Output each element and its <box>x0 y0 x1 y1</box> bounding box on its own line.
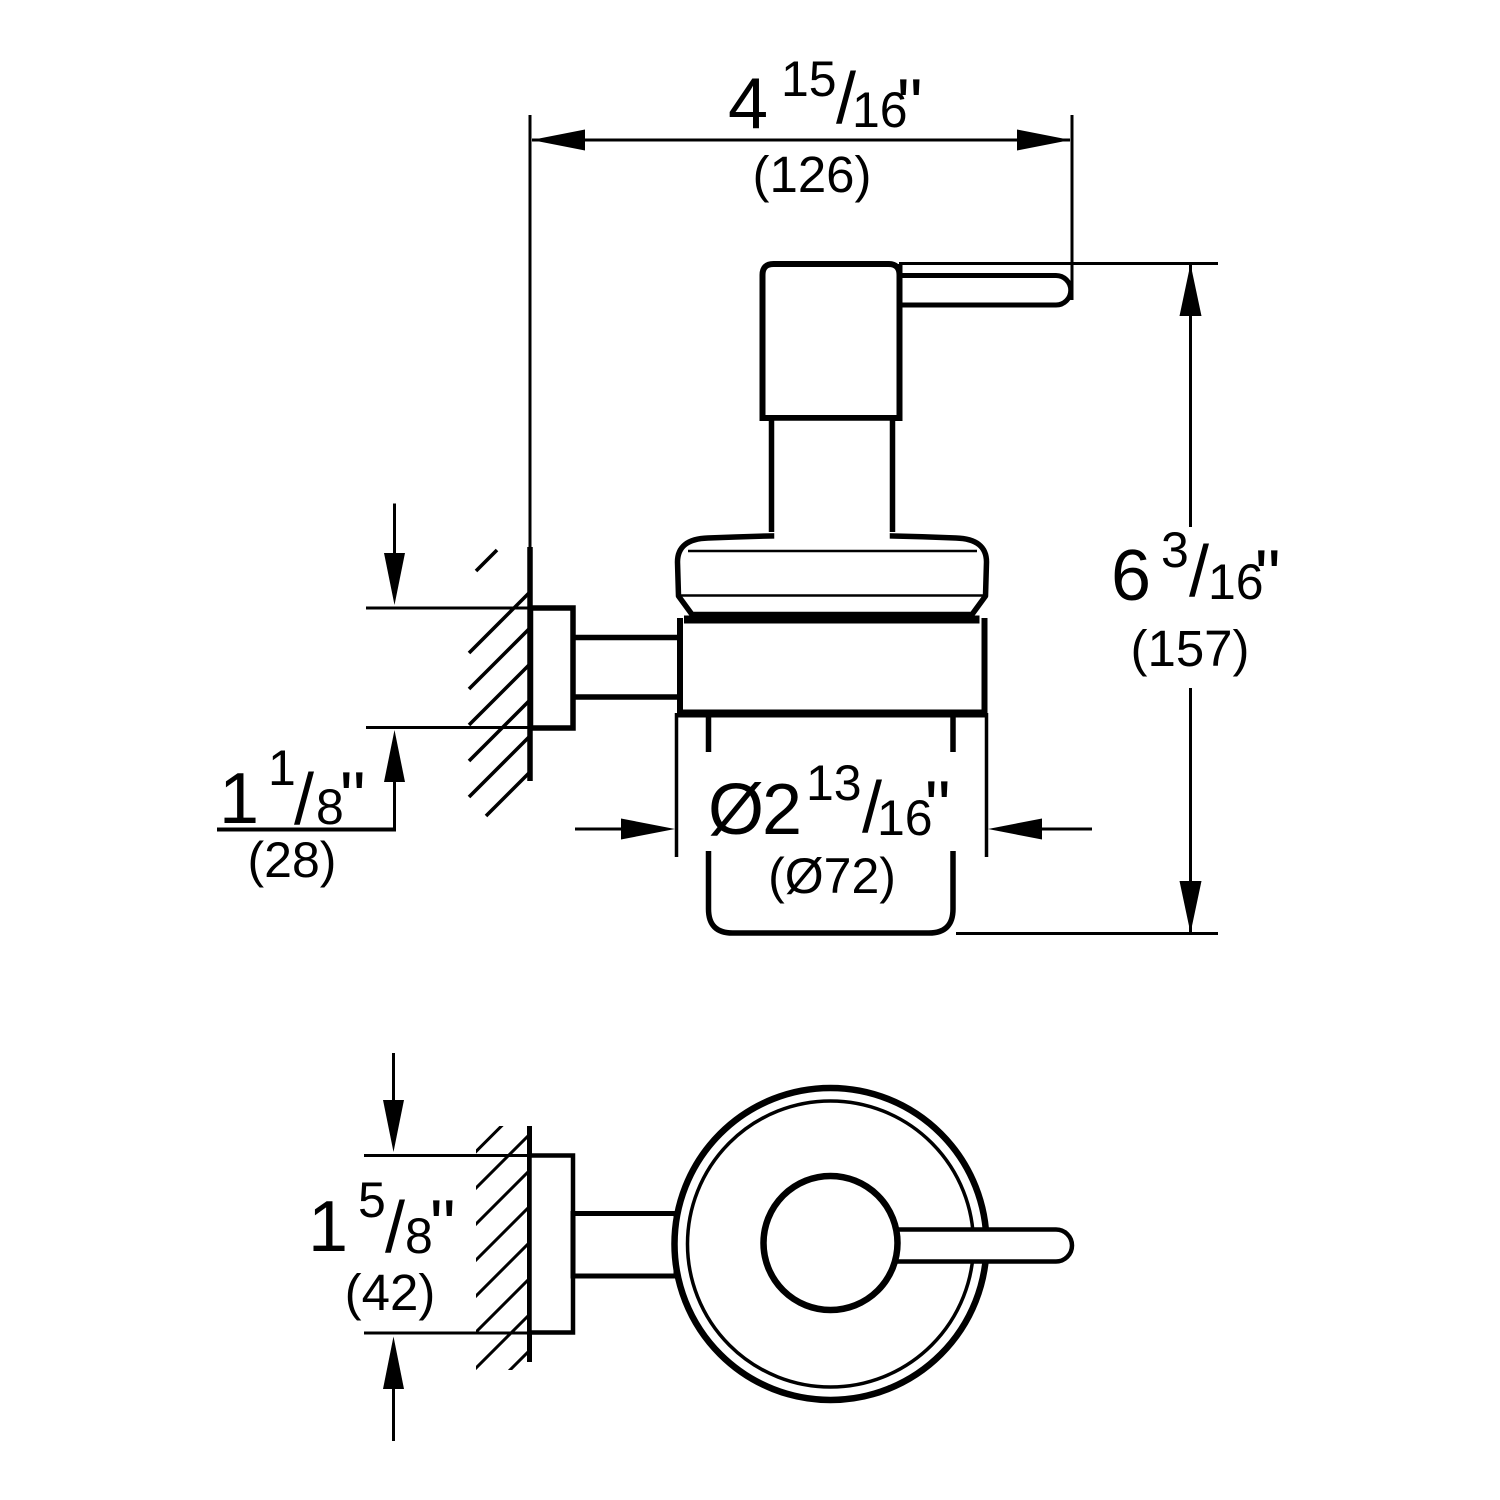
dimension 28: lower leader line <box>393 780 396 829</box>
dimension 157: top extension line <box>899 262 1218 265</box>
svg-text:Ø: Ø <box>708 770 764 850</box>
dimension 126: dimension line <box>532 139 1070 142</box>
svg-text:2: 2 <box>762 770 802 850</box>
svg-text:": " <box>340 758 366 838</box>
svg-text:(28): (28) <box>248 832 337 888</box>
wall plate (top view) <box>530 1156 574 1333</box>
halo behind diameter label <box>698 752 958 851</box>
pump body right edge redraw <box>897 264 903 418</box>
svg-text:6: 6 <box>1111 536 1151 616</box>
halo behind (72) label <box>762 848 902 904</box>
pump stem <box>774 519 890 542</box>
svg-text:": " <box>430 1186 456 1266</box>
label 4 15/16 inch <box>728 51 923 145</box>
dimension 72: left extension line <box>675 713 679 857</box>
dimension 126: right extension line <box>1071 115 1074 300</box>
svg-text:1: 1 <box>268 740 296 796</box>
dimension 72: right extension line <box>985 713 989 857</box>
dimension 28: up arrowhead <box>384 730 405 782</box>
dimension 72: left arrowhead <box>621 819 675 840</box>
dimension 42: top extension line <box>364 1154 530 1157</box>
dimension 42: bottom extension line <box>364 1332 530 1335</box>
holder ring right edge <box>982 618 988 716</box>
lid collar <box>678 535 987 614</box>
dimension 42: lower leader line <box>392 1387 395 1441</box>
label 1 1/8 inch <box>219 740 366 840</box>
svg-text:15: 15 <box>781 51 837 107</box>
label diameter 2 13/16 inch <box>708 755 951 850</box>
dimension 28: down arrowhead <box>384 553 405 605</box>
svg-text:(42): (42) <box>345 1264 436 1321</box>
svg-text:": " <box>1255 536 1281 616</box>
svg-text:/: / <box>1189 532 1209 612</box>
dimension 157: bottom extension line <box>956 932 1218 935</box>
pump head circle (top view) <box>764 1176 898 1310</box>
svg-text:(126): (126) <box>752 146 871 203</box>
wall hatching (top view) <box>466 1094 534 1451</box>
label 1 5/8 inch <box>308 1172 456 1268</box>
holder outer circle (top view) <box>675 1088 987 1400</box>
wall hatching (side view) <box>469 550 531 816</box>
svg-text:5: 5 <box>358 1172 386 1228</box>
holder bottom band <box>677 710 988 718</box>
wall (side view) <box>527 547 533 781</box>
svg-text:8: 8 <box>405 1208 433 1264</box>
dimension 126: left extension line <box>529 115 532 547</box>
glass cup <box>709 716 954 933</box>
holder inner ring (top view) <box>688 1101 974 1387</box>
svg-text:(Ø72): (Ø72) <box>768 848 896 904</box>
dimension 42: upper leader line <box>392 1053 395 1102</box>
holder arm (top view) <box>573 1214 676 1277</box>
dimension 28: upper leader line <box>393 504 396 557</box>
wall (top view) <box>527 1126 532 1362</box>
svg-text:3: 3 <box>1161 522 1189 578</box>
pump spout <box>899 276 1071 306</box>
dimension 72: right leader line <box>1042 828 1092 831</box>
dimension 42: down arrowhead <box>383 1100 404 1152</box>
svg-text:/: / <box>385 1188 405 1268</box>
dimension 28: text underline <box>217 828 396 832</box>
pump spout (top view) <box>850 1230 1072 1262</box>
glass rim band <box>684 616 980 624</box>
lid inner line lower <box>679 594 985 597</box>
dimension 42: up arrowhead <box>383 1337 404 1390</box>
svg-text:13: 13 <box>806 755 862 811</box>
dimension 72: right arrowhead <box>988 819 1042 840</box>
dimension 72: left leader line <box>575 828 628 831</box>
dimension 157: top arrowhead <box>1180 264 1202 316</box>
pump body <box>763 264 900 418</box>
lid inner line upper <box>688 550 977 553</box>
label 6 3/16 inch <box>1111 522 1281 616</box>
wall plate (side view) <box>531 608 574 728</box>
svg-text:1: 1 <box>308 1187 348 1267</box>
holder arm top <box>571 635 682 641</box>
dimension 157: dimension line lower <box>1189 688 1192 933</box>
svg-text:(157): (157) <box>1130 620 1249 677</box>
dimension 126: left arrowhead <box>532 130 586 151</box>
dimension 157: bottom arrowhead <box>1180 881 1202 933</box>
svg-text:1: 1 <box>219 759 259 839</box>
holder ring left edge <box>677 618 683 716</box>
dimension 157: dimension line upper <box>1189 265 1192 528</box>
dimension 28: top extension line <box>366 607 530 610</box>
svg-text:/: / <box>294 760 314 840</box>
holder arm bottom <box>571 694 682 700</box>
dimension 126: right arrowhead <box>1017 130 1071 151</box>
svg-text:": " <box>897 65 923 145</box>
svg-text:": " <box>925 767 951 847</box>
dimension 28: bottom extension line <box>366 726 531 729</box>
svg-text:4: 4 <box>728 65 768 145</box>
